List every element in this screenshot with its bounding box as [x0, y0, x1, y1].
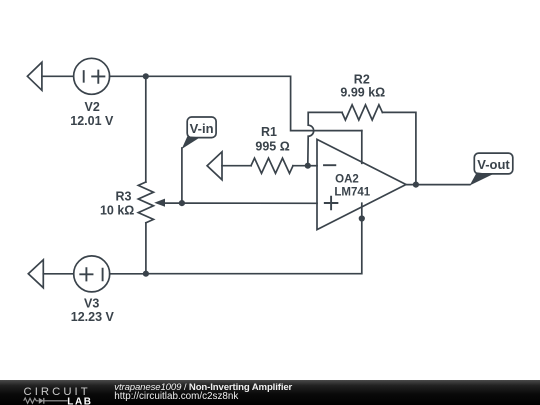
svg-text:12.23 V: 12.23 V: [71, 310, 115, 324]
voltage source V3: [74, 256, 110, 292]
voltage source V2: [74, 58, 110, 94]
resistor R1: [251, 158, 293, 173]
label V2 value: [70, 100, 114, 128]
wire V3 to node B: [110, 273, 146, 275]
svg-text:R1: R1: [261, 125, 277, 139]
resistor R3 (potentiometer): [138, 182, 182, 223]
svg-text:10 kΩ: 10 kΩ: [100, 203, 134, 217]
svg-text:LAB: LAB: [67, 396, 92, 405]
ground (R1 left): [207, 152, 251, 180]
svg-text:995 Ω: 995 Ω: [255, 140, 289, 154]
wire top rail: [146, 76, 362, 130]
footer bar: [0, 380, 540, 405]
op-amp OA2: [317, 139, 406, 229]
wire V2 to node A: [110, 75, 146, 77]
label R2 value: [340, 72, 385, 99]
wire node D to op-amp inverting input: [308, 165, 317, 167]
node C junction dot: [179, 200, 185, 206]
svg-text:V-out: V-out: [477, 157, 510, 172]
svg-text:V2: V2: [85, 100, 100, 114]
label R1 value: [255, 125, 289, 154]
wire V-in tag to node C: [181, 148, 183, 203]
wire R3 bottom to bottom rail: [145, 223, 147, 274]
label R3 value: [100, 190, 134, 218]
svg-text:12.01 V: 12.01 V: [70, 114, 114, 128]
svg-text:LM741: LM741: [334, 186, 370, 198]
wire R1 to node D: [293, 165, 308, 167]
ground (V3 left): [28, 260, 73, 288]
wire feedback with hop: [308, 112, 342, 165]
svg-text:9.99 kΩ: 9.99 kΩ: [340, 86, 385, 100]
label OA2 LM741: [334, 174, 370, 199]
svg-text:R2: R2: [354, 72, 370, 86]
wire node A down to R3: [145, 76, 147, 182]
wire bottom rail to VS-: [146, 203, 362, 274]
svg-text:OA2: OA2: [335, 174, 359, 186]
wire VS+ drop to op-amp: [361, 131, 363, 164]
node E junction dot: [413, 182, 419, 188]
node B junction dot: [143, 271, 149, 277]
label V-in tag: [182, 117, 216, 149]
svg-text:R3: R3: [116, 190, 132, 204]
resistor R2: [342, 105, 382, 120]
svg-text:V-in: V-in: [190, 121, 214, 136]
wire R2 right to output: [382, 112, 416, 184]
wire node C to op-amp non-inverting input: [182, 202, 317, 204]
svg-text:V3: V3: [84, 296, 99, 310]
wire op-amp output: [406, 184, 470, 186]
node A junction dot: [143, 73, 149, 79]
label V-out tag: [470, 153, 513, 185]
logo CIRCUIT LAB: [0, 380, 110, 405]
node VS- junction dot: [359, 215, 365, 221]
node D junction dot: [305, 163, 311, 169]
label V3 value: [71, 296, 115, 324]
footer text: [114, 383, 292, 393]
ground (V2 left): [27, 62, 73, 90]
